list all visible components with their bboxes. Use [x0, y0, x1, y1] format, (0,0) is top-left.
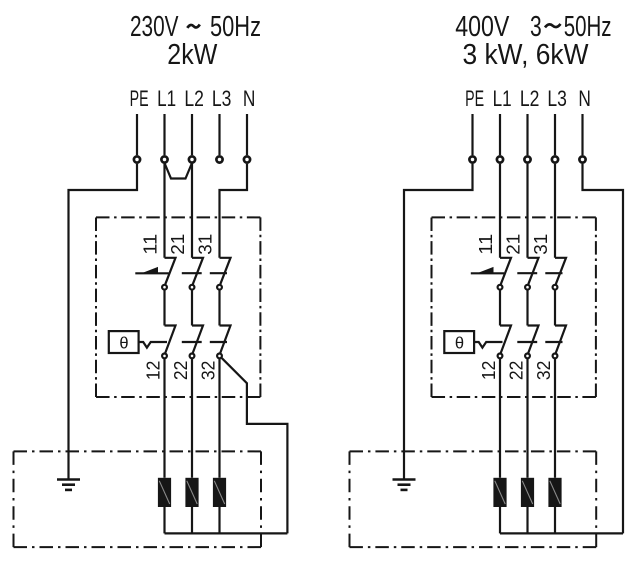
mechanical link dash upper pole2 (right): [517, 272, 537, 274]
terminal circle N (right): [579, 156, 585, 162]
mechanical link dash lower pole2 (left): [182, 341, 202, 343]
wire contact 32 to heater E3 (left): [218, 359, 220, 478]
thermal trip linkage zigzag (left): [139, 342, 167, 348]
svg-text:12: 12: [478, 361, 499, 381]
contact pivot circle lower pole 3 (right): [553, 354, 558, 359]
contact pivot circle lower pole 2 (right): [525, 354, 530, 359]
thermal overload element θ box (left): [109, 331, 139, 353]
svg-text:PE: PE: [465, 86, 484, 111]
lower thermal contact pole 1, terminal 12 (left): [165, 326, 176, 353]
contact pivot circle lower pole 3 (left): [217, 354, 222, 359]
svg-text:32: 32: [533, 361, 554, 381]
mechanical link dash lower pole3 (right): [545, 341, 562, 343]
supply lead L1 (right): [499, 114, 501, 155]
lower thermal contact pole 2, terminal 22 (left): [192, 326, 203, 353]
mechanical link dash lower pole2 (right): [517, 341, 537, 343]
svg-text:22: 22: [506, 361, 527, 381]
wire contact 32 to heater E3 (right): [554, 359, 556, 478]
lower thermal contact pole 3, terminal 32 (right): [555, 326, 566, 353]
wire contact 32 branch to heater return bus (left): [221, 358, 287, 534]
svg-text:L3: L3: [212, 86, 232, 111]
supply lead L3 (left): [218, 114, 220, 155]
svg-text:PE: PE: [130, 86, 149, 111]
upper break contact pole 2, terminal 21 (right): [528, 258, 539, 284]
terminal circle L2 (left): [189, 156, 195, 162]
actuator arrow head (right): [477, 267, 494, 273]
contact pivot circle upper pole 1 (right): [498, 285, 503, 290]
contact pivot circle upper pole 2 (right): [525, 285, 530, 290]
thermal overload element θ box (right): [444, 331, 474, 353]
contact pivot circle upper pole 3 (right): [553, 285, 558, 290]
wire N to contact 31 (left): [220, 164, 248, 258]
contact pivot circle lower pole 1 (left): [162, 354, 167, 359]
wire PE to earth (left): [69, 164, 138, 479]
wire contact 22 to heater E2 (right): [526, 359, 528, 478]
contact pivot circle upper pole 3 (left): [217, 285, 222, 290]
earth / ground symbol (left): [57, 478, 80, 481]
svg-text:θ: θ: [119, 334, 128, 352]
contact pivot circle lower pole 1 (right): [498, 354, 503, 359]
heating element E3 (left): [213, 478, 226, 507]
switch enclosure box (left): [96, 216, 260, 218]
mechanical link dash upper pole3 (left): [210, 272, 227, 274]
svg-text:L2: L2: [184, 86, 204, 111]
svg-text:32: 32: [198, 361, 219, 381]
svg-text:N: N: [578, 86, 591, 111]
heater tank enclosure box (right): [350, 450, 597, 452]
heater tank enclosure box (left): [14, 450, 262, 452]
wire between contacts pole 1 (left): [163, 290, 165, 326]
svg-text:θ: θ: [455, 334, 464, 352]
heating element E2 (left): [185, 478, 198, 507]
terminal circle PE (right): [469, 156, 475, 162]
svg-text:L2: L2: [520, 86, 540, 111]
heating element E2 (right): [521, 478, 534, 507]
title left tilde ~: [187, 25, 200, 28]
supply lead PE (right): [471, 114, 473, 155]
wire between contacts pole 3 (right): [554, 290, 556, 326]
title right tilde ~: [545, 24, 561, 28]
upper break contact pole 1, terminal 11 (right): [500, 258, 511, 284]
wire heater E1 bottom (left): [163, 507, 165, 533]
earth / ground symbol (right): [393, 478, 416, 481]
supply lead N (left): [246, 114, 248, 155]
lower thermal contact pole 2, terminal 22 (right): [528, 326, 539, 353]
wire L2 to contact 21 (left): [191, 164, 193, 258]
wire contact 12 to heater E1 (left): [163, 359, 165, 478]
terminal circle N (left): [244, 156, 250, 162]
lower thermal contact pole 3, terminal 32 (left): [220, 326, 231, 353]
svg-text:21: 21: [167, 234, 188, 255]
manual actuator line (left): [135, 272, 168, 274]
mechanical link dash upper pole3 (right): [545, 272, 562, 274]
switch enclosure box (right): [432, 216, 596, 218]
upper break contact pole 3, terminal 31 (right): [555, 258, 566, 284]
wire L1 to contact 11 (left): [163, 164, 165, 258]
supply lead L2 (left): [191, 114, 193, 155]
contact pivot circle upper pole 2 (left): [190, 285, 195, 290]
heating element E1 (right): [493, 478, 506, 507]
wire L2 to contact 21 (right): [526, 164, 528, 258]
svg-text:50Hz: 50Hz: [210, 11, 261, 43]
heater return bus (left): [165, 532, 288, 534]
svg-text:L1: L1: [493, 86, 512, 111]
svg-text:N: N: [243, 86, 256, 111]
svg-text:12: 12: [143, 361, 164, 381]
svg-text:L1: L1: [157, 86, 176, 111]
wire between contacts pole 3 (left): [218, 290, 220, 326]
svg-text:21: 21: [503, 234, 524, 255]
wire between contacts pole 1 (right): [499, 290, 501, 326]
svg-text:22: 22: [170, 361, 191, 381]
heating element E3 (right): [548, 478, 561, 507]
actuator arrow head (left): [142, 267, 159, 273]
lower thermal contact pole 1, terminal 12 (right): [500, 326, 511, 353]
supply lead L3 (right): [554, 114, 556, 155]
upper break contact pole 3, terminal 31 (left): [220, 258, 231, 284]
thermal trip linkage zigzag (right): [474, 342, 502, 348]
wire heater E1 bottom (right): [499, 507, 501, 533]
svg-text:11: 11: [140, 234, 161, 255]
mechanical link dash lower pole3 (left): [210, 341, 227, 343]
manual actuator line (right): [471, 272, 504, 274]
svg-text:3 kW, 6kW: 3 kW, 6kW: [463, 39, 590, 71]
supply lead L1 (left): [163, 114, 165, 155]
heater return bus (right): [500, 532, 623, 534]
contact pivot circle lower pole 2 (left): [190, 354, 195, 359]
terminal circle L3 (left): [216, 156, 222, 162]
wire heater E3 bottom (left): [218, 507, 220, 533]
svg-text:11: 11: [475, 234, 496, 255]
mechanical link dash upper pole2 (left): [182, 272, 202, 274]
svg-text:31: 31: [195, 234, 216, 255]
heating element E1 (left): [158, 478, 171, 507]
wire PE to earth (right): [404, 164, 473, 479]
terminal circle L3 (right): [552, 156, 558, 162]
terminal circle L1 (left): [161, 156, 167, 162]
wire L1 to contact 11 (right): [499, 164, 501, 258]
upper break contact pole 2, terminal 21 (left): [192, 258, 203, 284]
wire L3 to contact 31 (right): [554, 164, 556, 258]
wire heater E2 bottom (left): [191, 507, 193, 533]
wire between contacts pole 2 (right): [526, 290, 528, 326]
wire heater E2 bottom (right): [526, 507, 528, 533]
terminal circle PE (left): [134, 156, 140, 162]
upper break contact pole 1, terminal 11 (left): [165, 258, 176, 284]
svg-text:L3: L3: [547, 86, 567, 111]
terminal circle L1 (right): [497, 156, 503, 162]
wire contact 22 to heater E2 (left): [191, 359, 193, 478]
supply lead PE (left): [136, 114, 138, 155]
wire N to heater return bus (right): [583, 164, 624, 534]
svg-text:2kW: 2kW: [167, 39, 218, 71]
wire heater E3 bottom (right): [554, 507, 556, 533]
wire contact 12 to heater E1 (right): [499, 359, 501, 478]
contact pivot circle upper pole 1 (left): [162, 285, 167, 290]
supply lead L2 (right): [526, 114, 528, 155]
bridge link L1-L2 (left): [165, 163, 193, 179]
terminal circle L2 (right): [524, 156, 530, 162]
supply lead N (right): [581, 114, 583, 155]
svg-text:31: 31: [530, 234, 551, 255]
wire between contacts pole 2 (left): [191, 290, 193, 326]
